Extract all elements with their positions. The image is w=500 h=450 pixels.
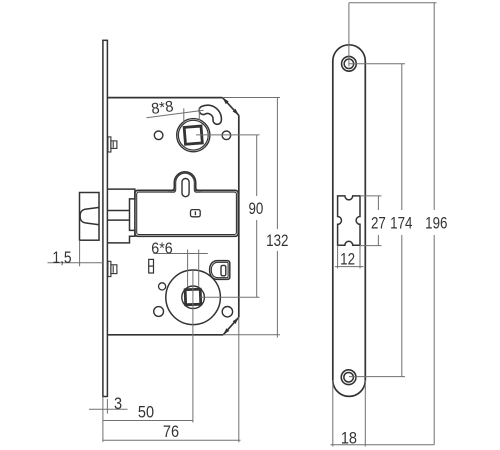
svg-text:27: 27 bbox=[371, 215, 386, 232]
svg-text:8*8: 8*8 bbox=[150, 98, 174, 118]
svg-text:1,5: 1,5 bbox=[52, 249, 71, 267]
svg-text:76: 76 bbox=[163, 423, 179, 441]
svg-text:196: 196 bbox=[425, 215, 447, 232]
svg-text:3: 3 bbox=[114, 395, 122, 413]
svg-text:90: 90 bbox=[248, 201, 263, 218]
svg-text:6*6: 6*6 bbox=[151, 241, 172, 258]
svg-text:12: 12 bbox=[340, 251, 355, 268]
svg-text:18: 18 bbox=[341, 430, 357, 448]
svg-text:50: 50 bbox=[138, 403, 154, 421]
svg-text:174: 174 bbox=[390, 215, 412, 232]
svg-text:132: 132 bbox=[266, 233, 288, 250]
